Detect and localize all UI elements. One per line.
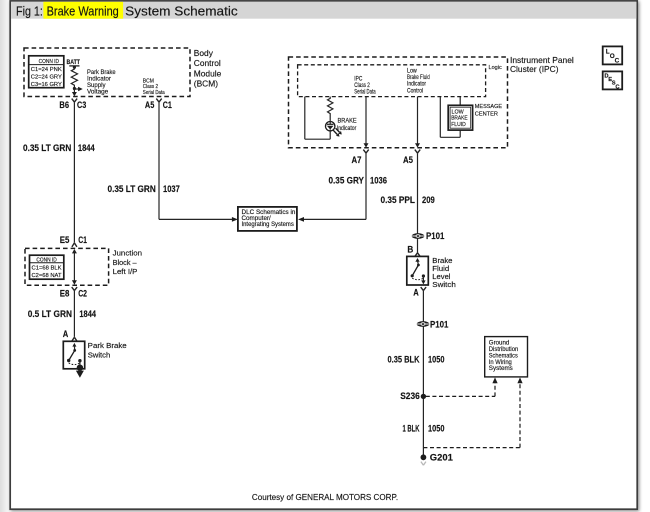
svg-text:MESSAGE: MESSAGE bbox=[475, 104, 502, 110]
svg-text:FLUID: FLUID bbox=[451, 122, 466, 128]
svg-text:C2=24 GRY: C2=24 GRY bbox=[31, 75, 62, 81]
connector Y below brake fluid level switch bbox=[421, 287, 426, 291]
svg-text:CONN ID: CONN ID bbox=[39, 59, 59, 65]
label Brake Fluid Level Switch bbox=[432, 256, 456, 289]
DLC schematics reference box bbox=[238, 207, 297, 231]
svg-text:0.35 PPL: 0.35 PPL bbox=[381, 195, 416, 205]
svg-text:Distribution: Distribution bbox=[489, 347, 519, 353]
connector Y at A5/C1 bbox=[156, 99, 161, 103]
svg-text:0.5 LT GRN: 0.5 LT GRN bbox=[28, 309, 72, 319]
svg-text:Control: Control bbox=[407, 89, 423, 95]
svg-text:Park Brake: Park Brake bbox=[88, 341, 127, 350]
svg-text:P101: P101 bbox=[426, 231, 444, 241]
wire B6 to junction block bbox=[73, 102, 75, 243]
svg-text:B: B bbox=[407, 244, 413, 254]
svg-text:1 BLK: 1 BLK bbox=[403, 424, 420, 434]
svg-text:Courtesy of GENERAL MOTORS COR: Courtesy of GENERAL MOTORS CORP. bbox=[252, 492, 398, 502]
label MESSAGE CENTER bbox=[475, 104, 502, 117]
brake indicator return wire bbox=[305, 97, 330, 140]
connector caret above junction block E5 bbox=[72, 243, 77, 247]
svg-text:Logic: Logic bbox=[489, 65, 502, 71]
svg-text:CENTER: CENTER bbox=[475, 111, 498, 117]
wire through junction block with arrowheads bbox=[72, 249, 77, 285]
svg-text:Indicator: Indicator bbox=[337, 126, 357, 132]
IPC logic inner box bbox=[298, 65, 486, 97]
label BCM Class 2 Serial Data bbox=[143, 79, 166, 96]
splice S236 bbox=[421, 394, 426, 399]
svg-text:Schematics: Schematics bbox=[489, 353, 518, 359]
junction block box bbox=[25, 248, 109, 285]
connector Y at A7 bbox=[363, 150, 368, 154]
svg-text:System Schematic: System Schematic bbox=[125, 5, 238, 19]
ground distribution reference box bbox=[485, 337, 528, 377]
svg-text:A: A bbox=[63, 329, 69, 339]
svg-text:Cluster (IPC): Cluster (IPC) bbox=[510, 64, 559, 74]
svg-text:P101: P101 bbox=[430, 320, 448, 330]
message center feed wires bbox=[440, 97, 460, 138]
svg-text:B6: B6 bbox=[59, 100, 69, 110]
svg-text:Integrating Systems: Integrating Systems bbox=[242, 222, 294, 228]
wire stub to BCM edge with exit arrowhead bbox=[72, 89, 77, 97]
LED bottom wire bbox=[329, 131, 331, 139]
park brake switch S1 box bbox=[63, 341, 84, 369]
svg-text:BATT: BATT bbox=[67, 59, 81, 66]
svg-text:C2=68 NAT: C2=68 NAT bbox=[32, 273, 62, 279]
node junction dot below resistor bbox=[73, 87, 76, 90]
svg-text:CONN ID: CONN ID bbox=[36, 258, 56, 264]
svg-text:(BCM): (BCM) bbox=[194, 79, 218, 89]
ground at park brake switch bbox=[76, 365, 84, 378]
svg-text:A5: A5 bbox=[403, 155, 413, 165]
ground G201 lower caret mark bbox=[421, 462, 426, 466]
pass-through connector P101 upper bbox=[412, 233, 425, 239]
dashed reference wire from S236 to ground distribution box bbox=[426, 377, 498, 396]
connector Y at A5 bbox=[415, 150, 420, 154]
svg-text:Low: Low bbox=[407, 68, 417, 74]
svg-text:C: C bbox=[615, 58, 620, 65]
svg-text:C3: C3 bbox=[77, 100, 86, 110]
label Park Brake Switch bbox=[88, 341, 127, 359]
IPC serial data wire to A7 bbox=[364, 97, 369, 148]
header bar bbox=[11, 2, 636, 19]
svg-text:In Wiring: In Wiring bbox=[489, 360, 512, 366]
label IPC Class 2 Serial Data bbox=[354, 76, 376, 95]
svg-text:Left I/P: Left I/P bbox=[113, 267, 138, 276]
resistor brake indicator bbox=[328, 97, 333, 121]
wire E8 to park brake switch bbox=[73, 291, 75, 337]
svg-text:0.35 LT GRN: 0.35 LT GRN bbox=[108, 184, 156, 194]
IPC module outer box bbox=[289, 57, 508, 148]
brake fluid level switch box bbox=[407, 256, 429, 285]
output voltage tap arrow bbox=[74, 87, 82, 91]
svg-text:A7: A7 bbox=[352, 155, 362, 165]
svg-text:1036: 1036 bbox=[370, 175, 387, 185]
resistor park brake indicator pull-up bbox=[71, 67, 77, 88]
svg-text:1050: 1050 bbox=[428, 355, 445, 365]
label Low Brake Fluid Indicator Control bbox=[407, 68, 430, 94]
brake fluid level switch internals bbox=[411, 258, 426, 284]
svg-text:Fig 1:: Fig 1: bbox=[16, 5, 43, 19]
svg-text:BRAKE: BRAKE bbox=[451, 116, 468, 122]
park brake switch internals bbox=[67, 343, 82, 367]
svg-text:Control: Control bbox=[194, 58, 221, 68]
svg-text:Serial Data: Serial Data bbox=[354, 90, 376, 96]
svg-text:Voltage: Voltage bbox=[87, 89, 109, 96]
svg-text:1050: 1050 bbox=[428, 424, 445, 434]
LED brake indicator lamp bbox=[326, 121, 335, 132]
LOW BRAKE FLUID display box bbox=[448, 105, 472, 130]
svg-text:C1=24 PNK: C1=24 PNK bbox=[31, 67, 62, 73]
pass-through connector P101 lower bbox=[417, 321, 430, 327]
header highlight bbox=[43, 2, 123, 19]
label BRAKE Indicator bbox=[337, 118, 357, 131]
BATT terminal bbox=[67, 59, 81, 69]
svg-text:Switch: Switch bbox=[88, 351, 111, 360]
svg-text:C1=68 BLK: C1=68 BLK bbox=[32, 266, 62, 272]
label Instrument Panel Cluster (IPC) bbox=[510, 55, 574, 74]
wire A5 to brake fluid level switch bbox=[417, 153, 419, 253]
svg-text:0.35 BLK: 0.35 BLK bbox=[388, 355, 421, 365]
svg-text:Brake Fluid: Brake Fluid bbox=[407, 75, 430, 81]
connector caret above park brake switch bbox=[72, 337, 77, 341]
svg-text:C2: C2 bbox=[78, 288, 87, 298]
svg-text:IPC: IPC bbox=[354, 76, 363, 82]
svg-text:1844: 1844 bbox=[79, 309, 96, 319]
LED emission arrows bbox=[333, 128, 342, 136]
junction block connector ID table bbox=[30, 255, 64, 279]
label Body Control Module (BCM) bbox=[194, 48, 222, 89]
svg-text:E5: E5 bbox=[60, 235, 70, 245]
svg-text:Ground: Ground bbox=[489, 341, 510, 347]
svg-text:A5: A5 bbox=[145, 100, 154, 110]
connector Y at B6/C3 bbox=[72, 99, 77, 103]
LOC button bbox=[603, 46, 623, 64]
svg-text:209: 209 bbox=[422, 195, 435, 205]
svg-text:C3=16 GRY: C3=16 GRY bbox=[31, 82, 62, 88]
svg-text:BRAKE: BRAKE bbox=[338, 118, 357, 124]
connector caret above brake fluid level switch bbox=[415, 253, 420, 256]
svg-text:Serial Data: Serial Data bbox=[143, 90, 166, 96]
svg-text:S236: S236 bbox=[400, 391, 420, 401]
svg-text:C1: C1 bbox=[78, 235, 87, 245]
svg-text:Junction: Junction bbox=[113, 249, 142, 258]
svg-text:Module: Module bbox=[194, 68, 222, 78]
svg-text:Switch: Switch bbox=[432, 280, 456, 289]
DESC button bbox=[603, 71, 623, 90]
connector Y below junction block E8 bbox=[72, 287, 77, 291]
svg-text:0.35 GRY: 0.35 GRY bbox=[329, 175, 365, 185]
svg-text:Systems: Systems bbox=[489, 366, 513, 372]
svg-text:Block –: Block – bbox=[113, 258, 138, 267]
label Junction Block - Left I/P bbox=[113, 249, 142, 277]
IPC low brake fluid wire to A5 bbox=[415, 97, 420, 148]
svg-text:0.35 LT GRN: 0.35 LT GRN bbox=[23, 143, 71, 153]
ground G201 bbox=[421, 454, 427, 460]
svg-text:G201: G201 bbox=[430, 452, 453, 463]
wire switch A to ground G201 bbox=[422, 291, 424, 458]
svg-text:Body: Body bbox=[194, 48, 214, 58]
svg-text:E8: E8 bbox=[60, 288, 70, 298]
wire C1 serial data to DLC note bbox=[159, 102, 238, 222]
svg-text:1844: 1844 bbox=[78, 143, 95, 153]
svg-text:Indicator: Indicator bbox=[407, 82, 426, 88]
dashed reference wire from G201 wire to ground distribution box bbox=[423, 377, 522, 447]
svg-text:A: A bbox=[413, 287, 419, 297]
svg-text:1037: 1037 bbox=[163, 184, 180, 194]
svg-text:Class 2: Class 2 bbox=[354, 83, 370, 89]
svg-text:Brake Warning: Brake Warning bbox=[47, 5, 119, 19]
label Park Brake Indicator Supply Voltage bbox=[87, 69, 116, 96]
wire A7 to DLC note bbox=[298, 153, 366, 222]
BCM module box bbox=[24, 48, 190, 97]
svg-text:LOW: LOW bbox=[452, 109, 465, 115]
svg-text:C1: C1 bbox=[163, 100, 172, 110]
BCM connector ID table bbox=[29, 56, 64, 88]
